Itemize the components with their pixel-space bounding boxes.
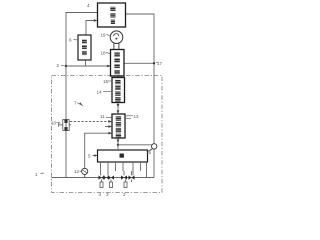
- svg-text:16: 16: [146, 150, 152, 155]
- pump circle P2: [82, 168, 88, 174]
- injector bowtie 1b: [103, 175, 109, 179]
- label tick S leader: [148, 149, 152, 152]
- motor circle M: [110, 31, 123, 44]
- wire B5 right to W2: [124, 62, 154, 64]
- svg-text:15: 15: [103, 79, 109, 84]
- wire arrow into B6 left: [93, 155, 97, 157]
- injector drop wires from B6: [100, 162, 102, 175]
- wire branch to sensor S: [118, 144, 152, 146]
- character blobs box B1: [110, 7, 115, 24]
- nozzle stubs below rail: [100, 180, 132, 188]
- svg-text:10: 10: [51, 121, 57, 126]
- injector bowtie 2: [108, 175, 114, 179]
- label arrow 7: [79, 102, 84, 107]
- svg-text:18: 18: [101, 51, 107, 56]
- character blobs box B5: [114, 52, 119, 74]
- ECU box B6: [98, 150, 148, 162]
- svg-text:1: 1: [35, 172, 38, 177]
- svg-text:12: 12: [74, 169, 80, 174]
- label tick 18 to B5: [106, 53, 110, 54]
- character blobs box B4: [116, 116, 121, 137]
- svg-text:19: 19: [101, 33, 107, 38]
- svg-text:11: 11: [100, 114, 105, 119]
- label tick 12 to pump: [80, 170, 82, 172]
- svg-text:4: 4: [87, 3, 90, 8]
- box B3: [112, 78, 125, 103]
- label ticks for 15 14 at B3: [108, 80, 112, 82]
- reference numerals: [35, 3, 163, 197]
- wire pump stem to rail: [84, 175, 86, 178]
- svg-text:2: 2: [123, 192, 126, 197]
- label tick 10 to valve: [57, 122, 61, 125]
- wire B4 to B6 with arrow: [117, 138, 119, 149]
- injector bowtie 3: [121, 175, 127, 179]
- pump unit box B5: [111, 50, 125, 77]
- node junction dot 17: [153, 62, 155, 64]
- label tick 1: [41, 172, 45, 175]
- node junction dot on B4-B6 wire: [117, 144, 119, 146]
- injector bowtie 4: [129, 175, 135, 179]
- label tick 11 at B4 top-left: [106, 117, 112, 119]
- label tick 16 to sensor: [150, 149, 153, 151]
- wire B2 bottom stub: [85, 60, 87, 66]
- svg-text:2: 2: [57, 63, 60, 68]
- label tick 19 to M: [107, 35, 110, 36]
- sensor circle S16: [152, 144, 157, 149]
- character blob box B6: [120, 154, 124, 158]
- wire node2 to B5 left: [66, 65, 110, 67]
- svg-text:17: 17: [157, 61, 163, 66]
- wire W1 from box B1 left down to rail: [66, 13, 98, 178]
- box B4: [112, 114, 125, 138]
- wire B2 top to B1 with arrow: [86, 21, 96, 36]
- node junction dot 2: [65, 65, 67, 67]
- label tick 17: [156, 62, 158, 64]
- svg-text:4: 4: [99, 192, 102, 197]
- character blobs box B3: [115, 80, 120, 102]
- wire pump P2 up and into B4 with arrow: [85, 133, 111, 168]
- label arrow 2: [61, 64, 65, 67]
- character blobs box B2: [82, 39, 87, 55]
- label tick 6 to B2: [74, 39, 79, 42]
- battery box B1: [98, 3, 126, 27]
- motor stem to B5: [113, 43, 115, 49]
- svg-text:13: 13: [134, 114, 140, 119]
- svg-text:5: 5: [88, 154, 91, 159]
- svg-text:6: 6: [69, 38, 72, 43]
- svg-text:14: 14: [97, 90, 103, 95]
- svg-text:7: 7: [74, 101, 77, 106]
- filter box B2: [78, 35, 91, 60]
- svg-text:3: 3: [106, 192, 109, 197]
- wire fuel rail: [52, 177, 155, 179]
- wire B3 to B4 with arrow: [117, 103, 119, 114]
- wire B5 to B3: [117, 76, 119, 78]
- wire W2 from box B1 right down right side: [126, 14, 155, 178]
- label ticks 13 at B4 right: [125, 115, 133, 117]
- wire dashed from regulator V to B4 with arrow: [70, 121, 111, 123]
- dash-dot enclosure border 1: [52, 76, 163, 193]
- injector bowtie 1: [99, 175, 105, 179]
- regulator valve V10: [59, 120, 72, 131]
- wire short arrow into B4 middle: [105, 126, 111, 128]
